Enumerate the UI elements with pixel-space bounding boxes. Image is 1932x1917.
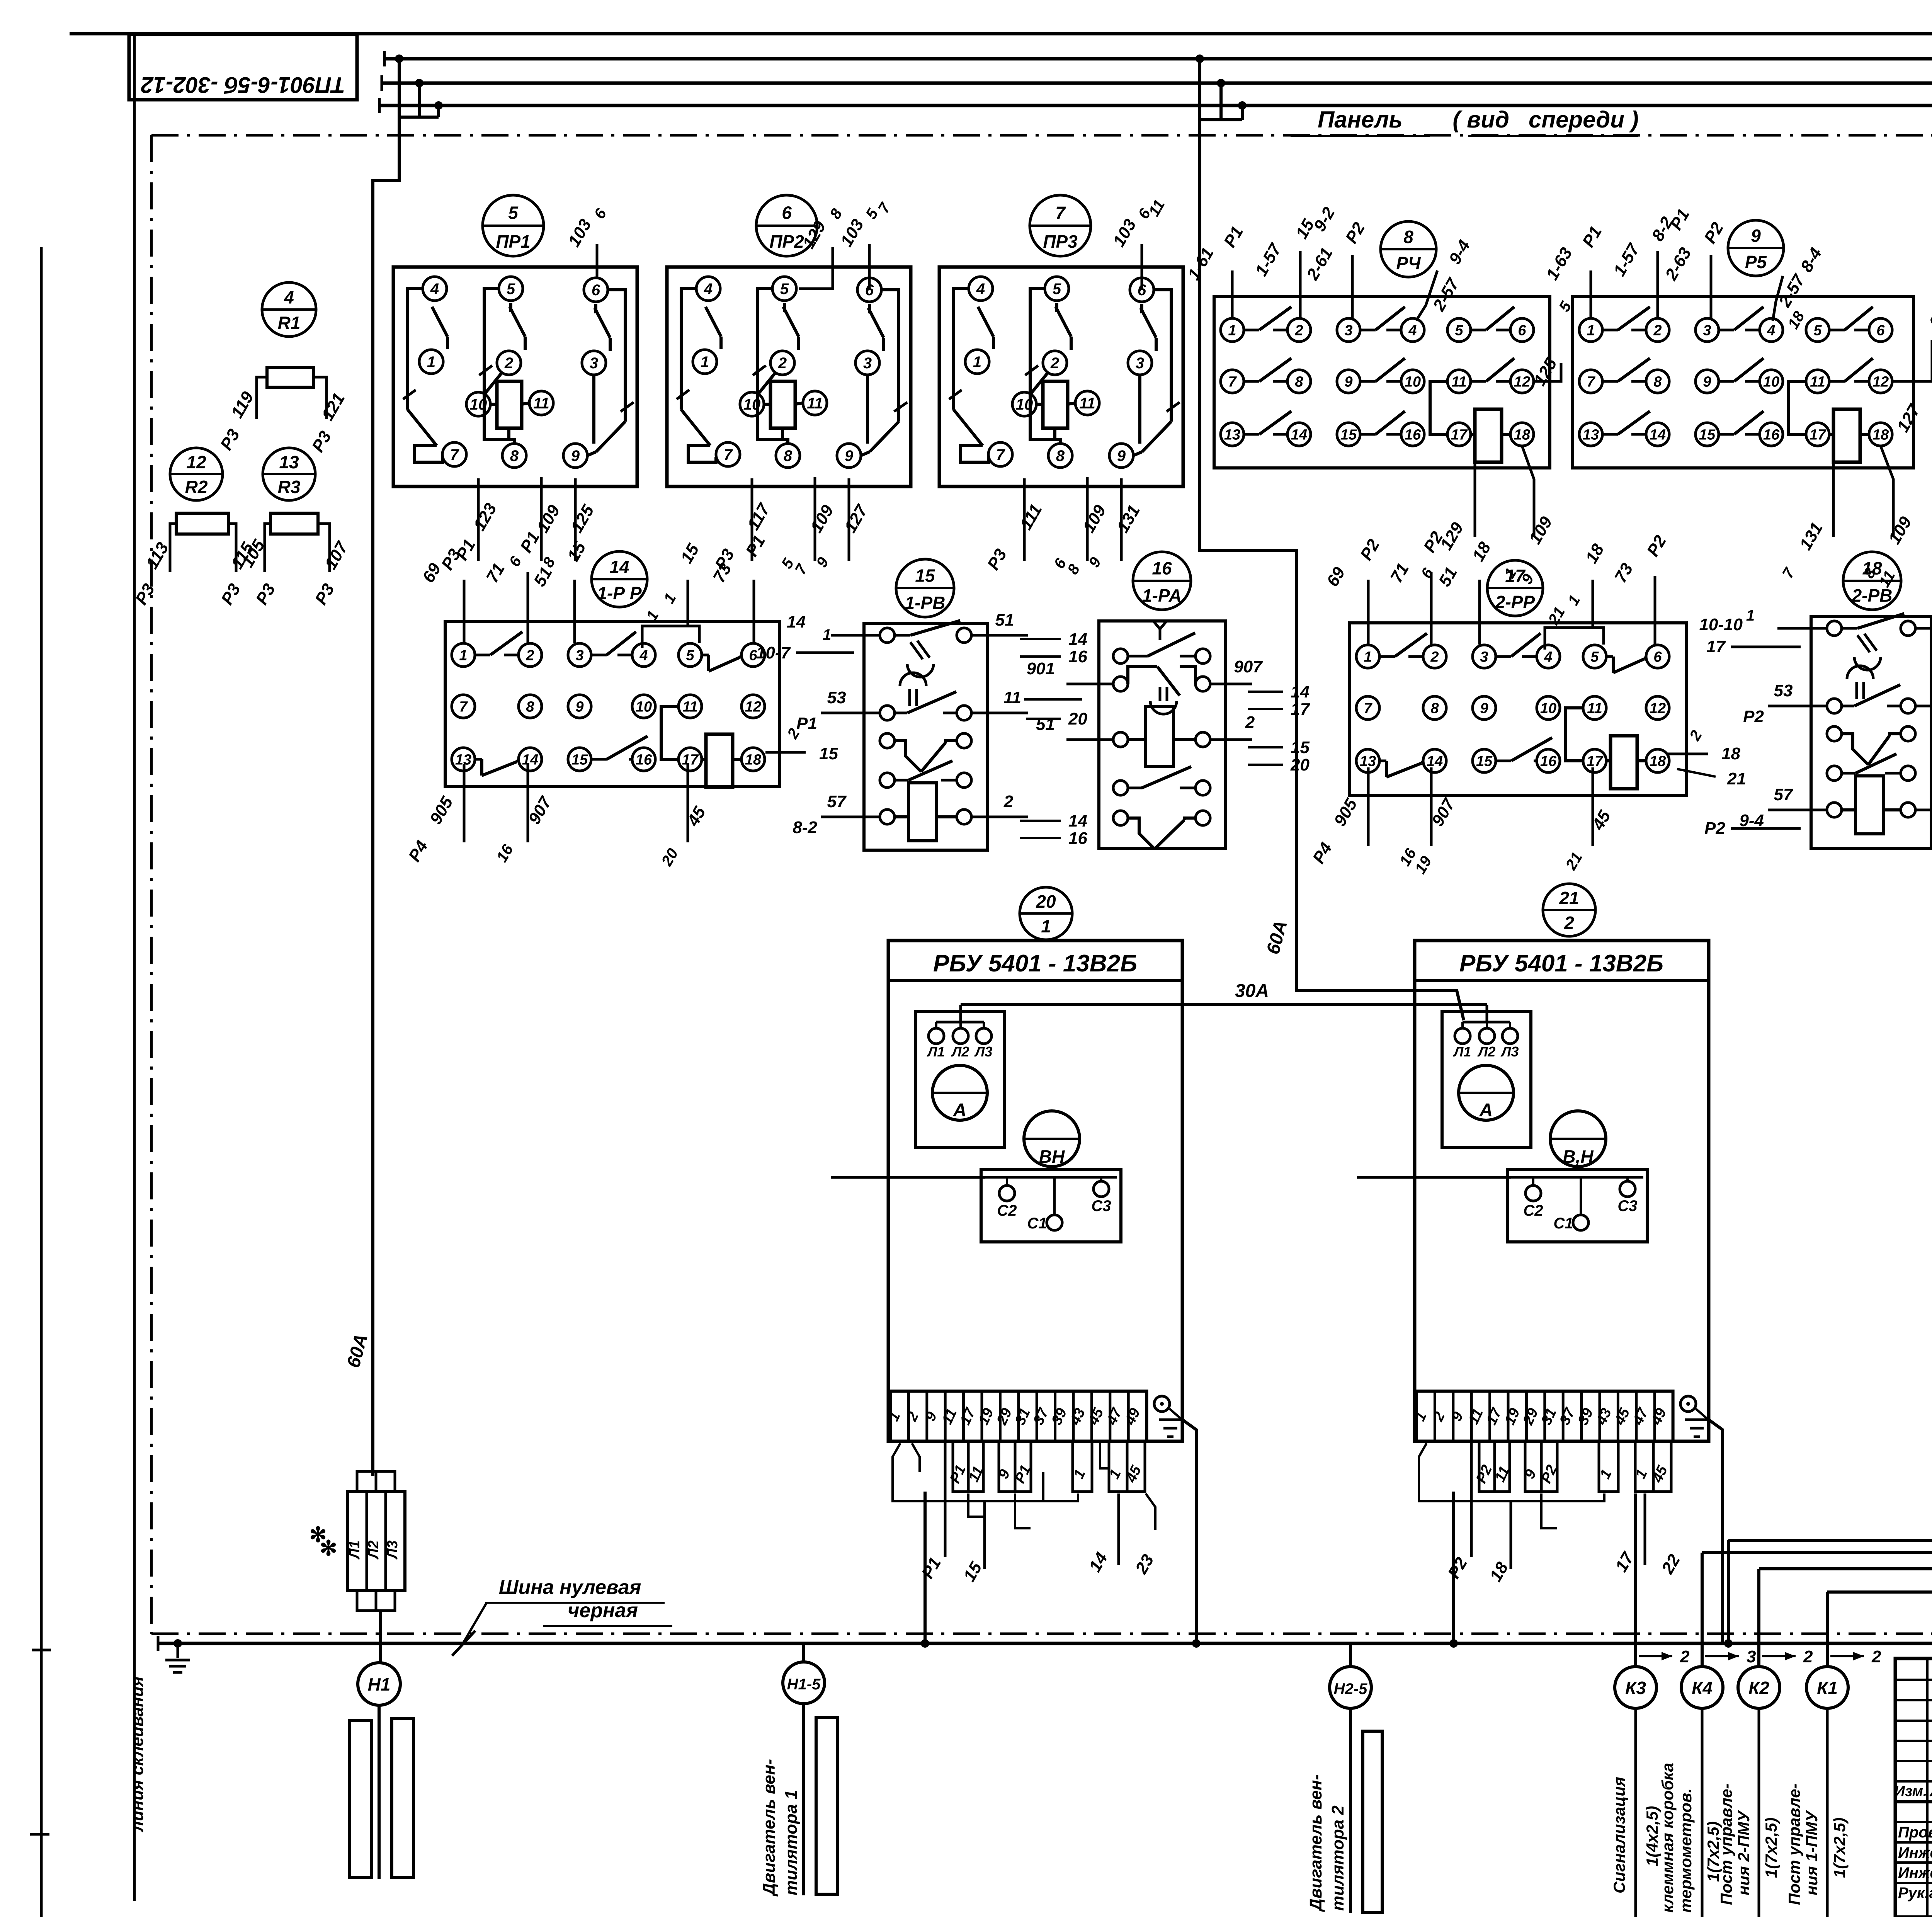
svg-text:1: 1 [1041, 916, 1051, 936]
svg-text:4: 4 [1408, 322, 1417, 338]
svg-text:С2: С2 [997, 1202, 1017, 1219]
svg-text:R1: R1 [278, 313, 301, 333]
relay PR1 box [393, 267, 637, 486]
cable circle &#1050;2 [1757, 1643, 1760, 1667]
svg-text:16: 16 [1068, 647, 1087, 666]
relay 1-RV contact row4 [880, 773, 895, 788]
svg-text:15: 15 [1476, 753, 1493, 769]
svg-text:ВН: ВН [1039, 1146, 1065, 1167]
wire PR2 pin11 bottom 109 [814, 477, 816, 561]
svg-text:20: 20 [1068, 709, 1087, 728]
relay 1-RR wire 11-17 [661, 706, 679, 759]
svg-text:Шина нулевая: Шина нулевая [499, 1576, 641, 1599]
RBU2 sub cells [1479, 1441, 1510, 1492]
relay 1-RV coil row5 [880, 810, 895, 824]
relay 1-RR pin 18 [742, 748, 765, 771]
relay PR2 pin 7 [716, 442, 740, 466]
svg-text:7: 7 [459, 699, 468, 715]
relay RCH pin 9 [1337, 370, 1360, 393]
RBU 1 wire to C box [831, 1176, 985, 1179]
RBU 1 bottom terminal strip [890, 1391, 1147, 1441]
relay 1-RR pin 15 [568, 748, 591, 771]
relay PR2 pin 2 [770, 351, 794, 375]
relay PR2 pin 3 [855, 351, 879, 375]
svg-text:2: 2 [1680, 1647, 1690, 1666]
svg-text:5: 5 [780, 281, 789, 298]
relay 1-RR pin 16 [632, 748, 655, 771]
relay PR1 pin 4 [423, 277, 447, 301]
svg-text:9: 9 [575, 699, 583, 715]
svg-text:1: 1 [973, 354, 981, 371]
svg-text:2: 2 [1050, 355, 1059, 372]
svg-text:К2: К2 [1748, 1678, 1769, 1698]
RBU 1 C box [981, 1170, 1121, 1242]
wires RCH top labels [1231, 270, 1234, 318]
svg-text:Двигатель вен-: Двигатель вен- [1306, 1774, 1325, 1912]
svg-text:10-7: 10-7 [756, 643, 791, 662]
lamp N1-5 [783, 1662, 825, 1704]
RBU2 hook wires [1419, 1443, 1604, 1501]
relay PR2 pin 4 [696, 277, 720, 301]
svg-text:8: 8 [510, 447, 519, 464]
relay 1-RV contact row3 [880, 733, 895, 748]
svg-text:16: 16 [1152, 558, 1172, 578]
relay 1-RR pin 10 [632, 695, 655, 718]
relay PR1 pin 8 [502, 444, 526, 468]
relay RCH pin 1 [1221, 318, 1244, 342]
relay RCH pin 18 [1510, 423, 1534, 446]
wire PR2 pin10 bottom 117 [751, 478, 753, 561]
zero bus [158, 1642, 1932, 1645]
svg-text:57: 57 [827, 792, 847, 811]
svg-text:7: 7 [1228, 374, 1237, 390]
svg-text:53: 53 [827, 688, 846, 707]
relay 1-RA coil row3 [1113, 732, 1128, 747]
RBU2 wire down to bus from strip [1452, 1492, 1455, 1643]
svg-text:РБУ 5401 - 13В2Б: РБУ 5401 - 13В2Б [1459, 950, 1663, 977]
wire: 60A feeder [1200, 120, 1464, 1020]
relay 2-RR pin 15 [1473, 749, 1496, 772]
svg-text:2: 2 [1871, 1647, 1881, 1666]
svg-text:14: 14 [1291, 427, 1307, 443]
svg-text:7: 7 [450, 446, 459, 463]
relay 2-RR pin 11 [1583, 696, 1606, 720]
relay RCH pin 4 [1401, 318, 1424, 342]
relay R5 pin 5 [1806, 318, 1829, 342]
relay R5 contact 13-14 [1602, 433, 1618, 436]
svg-text:13: 13 [279, 452, 299, 472]
relay RCH pin 14 [1287, 423, 1311, 446]
relay 2-RR contact 13-14 [1379, 760, 1386, 762]
svg-text:7: 7 [996, 446, 1005, 463]
svg-text:9: 9 [1117, 447, 1126, 464]
relay 1-RR pin 1 [452, 643, 475, 667]
relay PR3 pin 8 [1048, 444, 1072, 468]
relay R5 pin 4 [1760, 318, 1783, 342]
svg-text:1: 1 [701, 354, 709, 371]
K4 vertical feed [1701, 1553, 1704, 1643]
svg-text:8: 8 [526, 699, 534, 715]
K2 vertical feed [1757, 1569, 1760, 1643]
wires RCH bottom [1474, 446, 1476, 537]
svg-text:2: 2 [1803, 1647, 1813, 1666]
svg-text:А: А [953, 1100, 967, 1121]
svg-text:7: 7 [724, 446, 733, 463]
relay RCH pin 10 [1401, 370, 1424, 393]
relay R5 contact 1-2 [1602, 329, 1618, 332]
relay 1-RR (14) [592, 551, 647, 607]
relay 2-RR pin 17 [1583, 749, 1606, 772]
wire RCH 12 right 125 [1534, 363, 1561, 381]
svg-text:4: 4 [1767, 322, 1775, 338]
svg-text:2: 2 [504, 355, 513, 372]
svg-text:12: 12 [745, 699, 761, 715]
svg-text:2-РВ: 2-РВ [1852, 585, 1893, 606]
relay 1-RR pin 6 [742, 643, 765, 667]
relay RCH pin 6 [1510, 318, 1534, 342]
RBU unit 1 (20) [1020, 887, 1072, 940]
wires 1-RA right labels [1210, 683, 1252, 685]
relay PR3 coil [1043, 381, 1068, 428]
relay 1-RR pin 4 [632, 643, 655, 667]
svg-text:С1: С1 [1553, 1215, 1573, 1232]
svg-text:16: 16 [1405, 427, 1421, 443]
relay PR3 pin 9 [1109, 444, 1133, 468]
relay 1-RA contact row5 [1113, 811, 1128, 825]
lamp N2-5 [1330, 1667, 1371, 1708]
svg-text:14: 14 [1427, 753, 1443, 769]
svg-text:16: 16 [1763, 427, 1780, 443]
svg-text:5: 5 [508, 203, 519, 223]
RBU 2 input unit box [1442, 1012, 1531, 1148]
wire: N1-5 from bus [802, 1643, 805, 1662]
relay PR2 internal wiring [681, 289, 696, 410]
RBU1 wire down to bus from cell 2 [923, 1492, 927, 1643]
relay R5 pin 13 [1579, 423, 1602, 446]
svg-text:Л1: Л1 [927, 1044, 945, 1060]
svg-text:15: 15 [571, 752, 588, 768]
wires 2-RR bottom [1367, 767, 1370, 846]
svg-text:1: 1 [1364, 649, 1372, 665]
relay PR1 pin 5 [499, 277, 523, 301]
motor bar N2-5 [1363, 1731, 1382, 1913]
relay PR1 coil [497, 381, 522, 428]
relay R5 (9) [1728, 220, 1784, 276]
relay RCH wire 11-17 [1430, 381, 1447, 434]
svg-text:14: 14 [1650, 427, 1666, 443]
relay RCH contact 3-4 [1360, 329, 1376, 332]
RBU 1 ground [1154, 1396, 1170, 1412]
svg-text:А: А [1479, 1100, 1493, 1121]
relay 1-RR pin 3 [568, 643, 591, 667]
svg-text:Сигнализация: Сигнализация [1610, 1777, 1628, 1893]
wire: N1-5 down [802, 1704, 805, 1895]
relay 2-RR pin 3 [1473, 645, 1496, 668]
svg-text:Р1: Р1 [796, 714, 817, 733]
relay 2-RV box [1811, 617, 1931, 849]
svg-text:14: 14 [609, 557, 629, 577]
RBU 1 terminal C3 [1094, 1181, 1109, 1197]
svg-text:ния 2-ПМУ: ния 2-ПМУ [1735, 1810, 1753, 1895]
svg-text:11: 11 [1810, 374, 1825, 390]
relay PR1 pin 1 [419, 350, 443, 374]
cable circle &#1050;3 [1634, 1643, 1637, 1667]
relay RCH coil [1475, 409, 1502, 462]
relay 1-RR box [445, 621, 779, 787]
svg-text:9: 9 [1703, 374, 1711, 390]
svg-text:14: 14 [1068, 630, 1087, 649]
RBU2 ground wire down [1709, 1420, 1723, 1643]
svg-text:10: 10 [636, 699, 652, 715]
relay RCH contact 15-16 [1360, 433, 1376, 436]
relay 1-RV time contact row2 [880, 706, 895, 720]
svg-text:R3: R3 [278, 477, 301, 497]
svg-text:17: 17 [682, 752, 699, 768]
title block frame [1895, 1658, 1932, 1917]
fuse connector L1L2L3 [348, 1492, 405, 1590]
svg-text:R2: R2 [185, 477, 208, 497]
RBU 1 terminal C2 [999, 1186, 1015, 1201]
svg-text:13: 13 [1360, 753, 1376, 769]
relay 2-RR pin 9 [1473, 696, 1496, 720]
svg-text:К1: К1 [1817, 1678, 1838, 1698]
svg-text:Рук.гр.: Рук.гр. [1898, 1885, 1932, 1902]
RBU1 ground wire down [1182, 1420, 1196, 1643]
relay R5 box [1573, 296, 1913, 468]
wire PR3 pin10 bottom 111 [1023, 478, 1026, 561]
relay R5 contact 15-16 [1719, 433, 1734, 436]
svg-text:17: 17 [1451, 427, 1468, 443]
svg-text:1: 1 [1228, 322, 1236, 338]
relay PR3 pin 11 [1075, 391, 1099, 415]
svg-text:линия склеивания: линия склеивания [128, 1676, 147, 1832]
svg-text:17: 17 [1291, 700, 1310, 719]
svg-text:ния 1-ПМУ: ния 1-ПМУ [1803, 1810, 1821, 1895]
svg-text:В,Н: В,Н [1563, 1146, 1594, 1167]
svg-text:11: 11 [1079, 395, 1095, 412]
svg-text:21: 21 [1559, 888, 1579, 908]
relay 2-RR pin 5 [1583, 645, 1606, 668]
relay RCH box [1214, 296, 1550, 468]
svg-text:1-РВ: 1-РВ [905, 593, 946, 613]
RBU 2 ground [1680, 1396, 1696, 1412]
resistor R3 (13) [263, 448, 315, 500]
svg-text:11: 11 [682, 699, 697, 715]
svg-text:12: 12 [1514, 374, 1530, 390]
svg-text:С2: С2 [1523, 1202, 1543, 1219]
svg-text:57: 57 [1774, 785, 1794, 804]
svg-text:3: 3 [590, 355, 598, 372]
relay 1-RR pin 14 [519, 748, 542, 771]
svg-text:2: 2 [1430, 649, 1439, 665]
svg-text:тилятора 2: тилятора 2 [1328, 1805, 1347, 1911]
power bus L2 (green) [382, 82, 1932, 85]
RBU 2 meter VN [1550, 1111, 1606, 1167]
relay R5 wire 11-17 [1789, 381, 1806, 434]
svg-text:8: 8 [1295, 374, 1303, 390]
relay 1-RA contact row4 [1113, 781, 1128, 795]
wire: N2-5 from bus [1349, 1643, 1352, 1667]
svg-text:15: 15 [1340, 427, 1357, 443]
relay 2-RR pin 13 [1356, 749, 1379, 772]
K3 wire up [1634, 1493, 1637, 1643]
svg-text:1: 1 [823, 626, 831, 643]
svg-text:Н1-5: Н1-5 [787, 1676, 821, 1693]
svg-text:Л1: Л1 [1453, 1044, 1471, 1060]
wire: left feeder down [373, 117, 399, 1476]
arrow &#1050;4 [1705, 1655, 1739, 1657]
svg-text:2: 2 [1003, 792, 1014, 811]
relay R5 pin 18 [1869, 423, 1892, 446]
svg-text:10: 10 [1405, 374, 1421, 390]
wire PR1 pin10 bottom 123 [477, 478, 480, 561]
relay 2-RR pin 16 [1537, 749, 1560, 772]
svg-text:15: 15 [1699, 427, 1716, 443]
relay 1-RR contact 5-6 [702, 654, 709, 657]
wire bundle: P3 down to K2 [1759, 864, 1932, 1569]
svg-text:11: 11 [533, 395, 549, 412]
svg-text:2-РР: 2-РР [1495, 592, 1535, 612]
svg-text:5: 5 [1813, 322, 1822, 338]
RBU1 hook wires [893, 1443, 1078, 1501]
svg-text:1: 1 [459, 647, 467, 663]
svg-text:10: 10 [1016, 396, 1033, 413]
svg-text:8: 8 [784, 447, 793, 464]
svg-text:11: 11 [1587, 700, 1602, 716]
relay RCH pin 15 [1337, 423, 1360, 446]
svg-text:6: 6 [1653, 649, 1662, 665]
svg-text:12: 12 [1872, 374, 1889, 390]
wire: N1 down [378, 1705, 381, 1879]
svg-text:4: 4 [976, 281, 985, 298]
svg-text:Л2: Л2 [951, 1044, 969, 1060]
lamp N1 [358, 1663, 400, 1705]
relay PR1 pin 6 [584, 278, 608, 302]
svg-text:Н2-5: Н2-5 [1334, 1681, 1367, 1698]
svg-text:30А: 30А [1235, 981, 1269, 1001]
svg-text:14: 14 [522, 752, 538, 768]
relay PR3 pin 3 [1128, 351, 1152, 375]
relay PR3 pin 10 [1012, 392, 1036, 416]
svg-text:Пост управле-: Пост управле- [1717, 1783, 1735, 1905]
relay 1-RR pin 11 [679, 695, 702, 718]
svg-text:14: 14 [1291, 682, 1310, 701]
svg-text:С3: С3 [1091, 1197, 1111, 1214]
relay 1-RR contact 3-4 [591, 654, 607, 657]
wire PR3 pin6 top 103 [1141, 244, 1143, 290]
motor bar N1-5 [816, 1718, 838, 1894]
svg-text:Н1: Н1 [368, 1674, 391, 1694]
relay 2-RR pin 7 [1356, 696, 1379, 720]
title block left grid [1895, 1679, 1932, 1681]
wire PR3 pin9 bottom 131 [1120, 478, 1123, 561]
svg-text:5: 5 [686, 647, 694, 663]
relay PR2 pin 10 [740, 392, 764, 416]
wire R5 12 right 127 [1893, 340, 1932, 381]
K1 vertical feed [1826, 1592, 1829, 1643]
svg-text:16: 16 [1540, 753, 1557, 769]
svg-text:18: 18 [1872, 427, 1889, 443]
svg-text:7: 7 [1055, 203, 1066, 223]
wires 2-RV right labels [1915, 627, 1932, 630]
RBU 2 ammeter A [1459, 1065, 1514, 1120]
svg-text:Проверил: Проверил [1898, 1824, 1932, 1841]
relay PR2 pin 11 [803, 391, 827, 415]
wire: N2-5 down [1349, 1708, 1352, 1913]
svg-text:1-РА: 1-РА [1142, 585, 1182, 606]
svg-text:9: 9 [845, 447, 854, 464]
motor bars N1 [349, 1721, 372, 1878]
relay PR3 pin 1 [965, 350, 989, 374]
svg-text:Инжен.: Инжен. [1898, 1844, 1932, 1861]
wire bundle: P4 down to zero bus [1728, 1188, 1932, 1540]
relay RCH contact 13-14 [1244, 433, 1259, 436]
RBU 2 header [1415, 979, 1709, 982]
svg-text:15: 15 [819, 744, 838, 763]
RBU 2 terminals L1 L2 L3 [1455, 1028, 1470, 1044]
svg-text:7: 7 [1364, 700, 1372, 716]
relay R5 contact 11-12 [1829, 380, 1845, 383]
svg-text:17: 17 [1810, 427, 1827, 443]
right bus tap [1196, 54, 1204, 63]
relay 2-RR pin 1 [1356, 645, 1379, 668]
resistor R2 (12) [170, 448, 223, 500]
svg-text:Л3: Л3 [1500, 1044, 1519, 1060]
svg-text:11: 11 [807, 395, 823, 412]
svg-text:1(7х2,5): 1(7х2,5) [1762, 1818, 1780, 1878]
svg-text:2: 2 [778, 355, 787, 372]
svg-text:17: 17 [1587, 753, 1604, 769]
svg-text:клеммная коробка: клеммная коробка [1658, 1763, 1677, 1913]
svg-text:Пост управле-: Пост управле- [1785, 1783, 1803, 1905]
svg-text:Р2: Р2 [1743, 707, 1764, 726]
relay RCH pin 2 [1287, 318, 1311, 342]
relay R5 pin 10 [1760, 370, 1783, 393]
relay R5 pin 2 [1646, 318, 1669, 342]
relay RCH contact 1-2 [1244, 329, 1259, 332]
svg-text:18: 18 [1721, 744, 1740, 763]
relay 2-RR pin 14 [1423, 749, 1446, 772]
svg-text:Инжен.: Инжен. [1898, 1864, 1932, 1881]
wires 1-RR top labels [463, 580, 466, 643]
relay PR2 coil [770, 381, 795, 428]
svg-text:4: 4 [1544, 649, 1552, 665]
svg-text:12: 12 [186, 452, 206, 472]
svg-text:Панель: Панель [1318, 107, 1403, 133]
relay R5 pin 7 [1579, 370, 1602, 393]
svg-text:Р2: Р2 [1704, 819, 1725, 838]
svg-text:9: 9 [1480, 700, 1488, 716]
relay 2-RR (17) [1487, 560, 1543, 616]
svg-text:17: 17 [1505, 566, 1526, 586]
svg-text:10: 10 [743, 396, 761, 413]
relay 1-RR pin 5 [679, 643, 702, 667]
relay PR2 (6) [756, 195, 817, 256]
relay R5 pin 15 [1696, 423, 1719, 446]
relay R5 pin 6 [1869, 318, 1892, 342]
svg-text:14: 14 [787, 612, 806, 631]
RBU unit 2 (21) [1543, 884, 1595, 936]
relay PR1 pin 2 [497, 351, 521, 375]
relay PR2 pin 5 [772, 277, 796, 301]
svg-text:11: 11 [1003, 688, 1021, 707]
svg-text:8: 8 [1403, 227, 1413, 247]
svg-text:12: 12 [1650, 700, 1666, 716]
relay RCH (8) [1381, 221, 1436, 277]
wire 1-RR 18 right [765, 751, 806, 754]
svg-text:20: 20 [1036, 891, 1056, 912]
relay PR2 pin 1 [693, 350, 717, 374]
